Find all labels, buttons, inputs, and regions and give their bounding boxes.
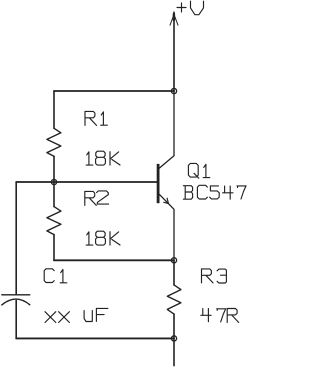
label R1	[85, 111, 107, 125]
wire C1 bottom lead	[15, 301, 17, 339]
wire bottom rail	[16, 337, 174, 339]
wire R2 bottom lead	[53, 235, 55, 261]
wire C1 top branch	[15, 182, 17, 295]
wire output stub	[173, 338, 175, 365]
wire R3 bottom lead	[173, 314, 175, 338]
label Q1	[188, 163, 209, 178]
junction emitter/R3	[171, 258, 176, 263]
label R3	[202, 269, 227, 283]
wire base net	[16, 181, 157, 183]
wire R1 bottom lead	[53, 156, 55, 182]
junction R1/R2/base	[51, 179, 56, 184]
value BC547	[183, 185, 246, 199]
value 18K (R2)	[86, 231, 120, 245]
power +V	[170, 12, 178, 91]
label +V	[177, 1, 204, 15]
label R2	[85, 191, 109, 206]
value xx uF	[45, 308, 108, 322]
wire VCC top	[54, 90, 174, 92]
wire R2 to emitter	[54, 259, 174, 261]
wire R1 top lead	[53, 91, 55, 128]
resistor R2	[47, 207, 61, 235]
wire R2 top lead	[53, 182, 55, 207]
value 18K (R1)	[86, 151, 120, 165]
label C1	[44, 269, 67, 283]
junction bottom rail	[171, 336, 176, 341]
resistor R1	[47, 128, 61, 156]
resistor R3	[167, 285, 181, 314]
junction collector/VCC	[171, 88, 176, 93]
wire R3 top lead	[173, 260, 175, 285]
capacitor C1	[2, 295, 30, 305]
transistor Q1	[157, 91, 174, 260]
value 47R	[201, 309, 239, 323]
